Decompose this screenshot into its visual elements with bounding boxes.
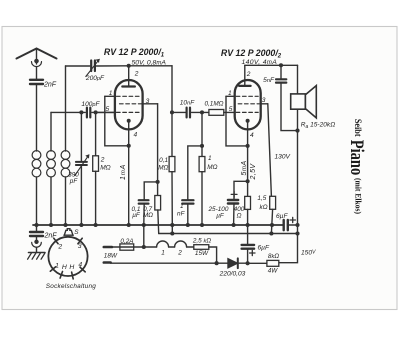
svg-text:0,1: 0,1 bbox=[159, 157, 168, 164]
node cathode RC bbox=[246, 179, 250, 183]
cathode U1 bbox=[127, 119, 131, 123]
wire B- to 8k bbox=[248, 262, 267, 264]
socket pin tick 4 bbox=[80, 267, 85, 272]
node 2M/bus bbox=[94, 223, 98, 227]
wire choke to 2,5k bbox=[187, 246, 194, 248]
antenna bbox=[17, 49, 57, 59]
resistor 1,5kOhm bbox=[270, 196, 276, 209]
svg-text:2,5V: 2,5V bbox=[250, 163, 257, 181]
choke winding 2 bbox=[175, 241, 187, 247]
wire bus to lower 2nF bbox=[36, 225, 38, 232]
node grid2 divider bbox=[200, 110, 204, 114]
wire screen U2 down bbox=[268, 104, 272, 197]
wire to cathode elko bbox=[234, 181, 248, 200]
svg-text:2: 2 bbox=[57, 244, 62, 251]
node 1,5k/bus1 bbox=[270, 223, 274, 227]
node L2/bus bbox=[49, 223, 53, 227]
capacitor 5nF bbox=[276, 79, 286, 82]
node speaker bottom bbox=[295, 129, 299, 133]
socket pin tick 1 bbox=[50, 267, 55, 272]
wire grid stopper to pin5 U2 bbox=[202, 111, 235, 113]
svg-text:µF: µF bbox=[216, 213, 225, 220]
svg-text:Ω: Ω bbox=[237, 213, 242, 220]
node fuse/link bbox=[142, 245, 146, 249]
inductor L2 bbox=[47, 151, 56, 177]
node L3/bus bbox=[63, 223, 67, 227]
node cathode junction U1 bbox=[127, 144, 131, 148]
svg-text:Sockelschaltung: Sockelschaltung bbox=[46, 283, 96, 290]
svg-text:2: 2 bbox=[134, 71, 139, 78]
svg-text:4W: 4W bbox=[268, 268, 279, 275]
socket pin tick 2 bbox=[54, 238, 58, 244]
capacitor 2nF (antenna) bbox=[30, 80, 43, 84]
svg-text:H: H bbox=[62, 264, 67, 271]
svg-text:50V, 0,8mA: 50V, 0,8mA bbox=[132, 59, 167, 66]
resistor 8kOhm bbox=[267, 260, 279, 266]
node varcap/bus bbox=[79, 223, 83, 227]
wire down to coil L1 bbox=[36, 84, 38, 151]
mains stub lower bbox=[104, 261, 111, 264]
node screen junction bbox=[156, 180, 160, 184]
capacitor 0,1uF bbox=[139, 200, 149, 203]
node 6uF/B- bbox=[246, 261, 250, 265]
wire screen to 0,1uF bbox=[144, 182, 157, 200]
diode 220/0,03 bbox=[228, 258, 238, 268]
wire anode U2 rail bbox=[245, 64, 298, 66]
wire 10nF bbox=[172, 111, 202, 113]
svg-text:200pF: 200pF bbox=[85, 75, 105, 82]
svg-text:0,1MΩ: 0,1MΩ bbox=[204, 100, 223, 107]
svg-text:1mA: 1mA bbox=[120, 164, 127, 180]
wire L2 to bus bbox=[50, 177, 52, 225]
wire to ground bbox=[36, 247, 38, 252]
cathode lead U2 pin 4 bbox=[247, 122, 249, 146]
grid g2 U2 (dashed) bbox=[238, 103, 259, 105]
pin 1 lead U1 bbox=[105, 95, 115, 97]
wire between windings bbox=[169, 246, 175, 248]
node 5nF top bbox=[279, 63, 283, 67]
svg-text:H: H bbox=[69, 264, 74, 271]
wire 1nF to bus bbox=[187, 204, 189, 225]
pin 5 lead U1 bbox=[97, 111, 115, 113]
resistor 1MOhm bbox=[199, 157, 205, 172]
wire screen U1 down bbox=[157, 104, 159, 182]
svg-text:2nF: 2nF bbox=[44, 233, 58, 240]
anode plate U1 bbox=[122, 85, 135, 87]
svg-text:4: 4 bbox=[78, 262, 82, 269]
wire L2 top to 100pF wire bbox=[50, 112, 52, 151]
node 400/bus1 bbox=[246, 223, 250, 227]
wire cathode U1 to bus bbox=[128, 146, 130, 225]
node 0,1uF/bus bbox=[142, 223, 146, 227]
op-amp? no: tube U1 envelope bbox=[115, 80, 143, 129]
node cathode/bus bbox=[127, 223, 131, 227]
pin 3 lead U1 bbox=[143, 103, 158, 105]
svg-text:3: 3 bbox=[146, 98, 150, 105]
svg-text:150V: 150V bbox=[301, 250, 316, 257]
svg-text:MΩ: MΩ bbox=[143, 212, 153, 219]
node link/bus2 bbox=[170, 231, 174, 235]
svg-text:MΩ: MΩ bbox=[158, 164, 168, 171]
node elko/bus bbox=[232, 223, 236, 227]
node 1M/bus bbox=[200, 223, 204, 227]
wire 1M to bus bbox=[201, 172, 203, 225]
variable capacitor 390pF bbox=[76, 162, 87, 165]
bus heater tap (bus2) bbox=[159, 233, 298, 235]
svg-text:Piano: Piano bbox=[347, 140, 368, 175]
wire elko to bus bbox=[233, 204, 235, 226]
inductor L1 bbox=[32, 151, 41, 177]
svg-text:1,5: 1,5 bbox=[257, 195, 266, 202]
svg-text:1: 1 bbox=[55, 263, 59, 270]
wire anode rail down at x172 bbox=[171, 66, 173, 157]
wire diode to node bbox=[238, 262, 248, 264]
arrow of 390pF bbox=[75, 154, 90, 175]
svg-text:2,5 kΩ: 2,5 kΩ bbox=[192, 238, 211, 245]
wire varcap to bus bbox=[80, 165, 82, 225]
speaker (transformer box) bbox=[291, 94, 306, 109]
wire to choke bbox=[144, 246, 157, 248]
grid g2 U1 (dashed) bbox=[120, 103, 142, 105]
cathode U2 bbox=[246, 119, 250, 123]
pin 1 lead U2 bbox=[226, 95, 235, 97]
svg-text:2: 2 bbox=[100, 157, 105, 164]
capacitor 1nF bbox=[182, 200, 193, 203]
svg-text:5: 5 bbox=[229, 106, 233, 113]
resistor 2MOhm bbox=[93, 156, 99, 172]
capacitor 10nF bbox=[187, 108, 190, 118]
wire grid circuit to 100pF bbox=[51, 111, 85, 113]
resistor 0,1MOhm (anode load U1) bbox=[169, 157, 175, 172]
svg-text:1: 1 bbox=[109, 90, 113, 97]
node 0,1M/bus1 bbox=[170, 223, 174, 227]
svg-text:2nF: 2nF bbox=[43, 82, 57, 89]
plug connector antenna bbox=[32, 59, 42, 66]
wire HT rail right bbox=[297, 65, 299, 94]
svg-text:(mit Elkos): (mit Elkos) bbox=[353, 178, 362, 214]
wire 0,7M to bus2 bbox=[157, 210, 160, 234]
resistor 2,5kOhm bbox=[194, 245, 209, 250]
wire bus1 to bus2 link bbox=[171, 225, 173, 234]
node rail/bus1 bbox=[295, 223, 299, 227]
pin 3 lead U2 bbox=[261, 103, 268, 105]
node L1/bus bbox=[34, 223, 38, 227]
wire to fuse bbox=[112, 246, 144, 248]
capacitor 25-100uF elko bbox=[228, 200, 238, 204]
node 10nF left bbox=[170, 110, 174, 114]
svg-text:5nF: 5nF bbox=[263, 77, 275, 84]
wire top feedback rail left bbox=[66, 65, 90, 67]
plus sign bus elko bbox=[290, 217, 295, 222]
grid g1 U2 (dashed) bbox=[236, 111, 258, 113]
svg-text:8kΩ: 8kΩ bbox=[268, 253, 279, 260]
node 2,5k drop/B- bbox=[215, 261, 219, 265]
svg-text:S: S bbox=[74, 229, 79, 236]
svg-text:MΩ: MΩ bbox=[100, 164, 111, 171]
svg-text:6µF: 6µF bbox=[276, 213, 288, 220]
svg-text:130V: 130V bbox=[275, 154, 291, 161]
plus sign elko bbox=[231, 192, 237, 198]
resistor 0,1MOhm (grid stopper U2) bbox=[209, 110, 224, 116]
wire 2,5k down to B- bbox=[209, 247, 217, 263]
svg-text:100pF: 100pF bbox=[81, 101, 100, 108]
wire top rail to anode node bbox=[96, 65, 172, 67]
svg-text:Seibt: Seibt bbox=[353, 119, 364, 137]
node 1nF/bus bbox=[186, 223, 190, 227]
svg-text:1: 1 bbox=[228, 90, 232, 97]
svg-text:RV 12 P 2000/1: RV 12 P 2000/1 bbox=[104, 47, 165, 59]
svg-text:µF: µF bbox=[132, 212, 141, 219]
node cathode junction U2 bbox=[246, 144, 250, 148]
wire 5nF to speaker bottom bbox=[281, 83, 298, 131]
capacitor 100pF bbox=[87, 108, 90, 118]
svg-text:4: 4 bbox=[134, 132, 138, 139]
wire varcap bbox=[80, 112, 82, 161]
anode plate U2 bbox=[239, 85, 251, 87]
svg-text:10nF: 10nF bbox=[180, 100, 195, 107]
wire to C antenna bbox=[36, 67, 38, 79]
ground bbox=[28, 253, 45, 260]
node anode U1 bbox=[127, 64, 131, 68]
plus sign 6uF bbox=[250, 250, 255, 255]
plug connector ground bbox=[32, 236, 42, 247]
socket pin tick 3 bbox=[78, 238, 82, 244]
node varcap top bbox=[79, 110, 83, 114]
cathode lead U1 pin 4 bbox=[128, 122, 130, 146]
resistor 400 Ohm bbox=[247, 181, 249, 196]
wire cathode down bbox=[247, 146, 249, 181]
wire 0,1uF to bus bbox=[143, 204, 145, 225]
anode lead U2 pin 2 bbox=[244, 65, 246, 85]
wire L3 top from top rail corner bbox=[65, 66, 67, 151]
wire bus elko to rail bbox=[288, 224, 298, 226]
wire 6uF to B- line bbox=[247, 249, 249, 264]
grid g3 U1 (dashed) bbox=[117, 95, 140, 97]
svg-text:220/0,03: 220/0,03 bbox=[219, 271, 246, 278]
svg-text:1: 1 bbox=[180, 203, 184, 210]
socket diagram circle bbox=[48, 237, 87, 276]
svg-text:0,2A: 0,2A bbox=[120, 238, 133, 245]
fuse 0,2A bbox=[120, 244, 134, 250]
socket pin tick H bbox=[60, 272, 62, 279]
wire mains lower to diode bbox=[111, 262, 228, 264]
node 1nF junction bbox=[200, 144, 204, 148]
capacitor 6uF (bus coupling elko) bbox=[284, 220, 288, 230]
svg-text:nF: nF bbox=[177, 211, 186, 218]
wire 2M top bbox=[95, 112, 97, 155]
wire L1 to bus bbox=[36, 177, 38, 225]
svg-text:MΩ: MΩ bbox=[207, 164, 217, 171]
wire 1nF branch bbox=[188, 146, 202, 200]
inductor L3 bbox=[61, 151, 70, 177]
svg-text:5mA: 5mA bbox=[241, 160, 248, 175]
trimmer capacitor 200pF bbox=[91, 61, 95, 72]
bus chassis (bus1) bbox=[33, 224, 284, 226]
capacitor 6uF elko vertical bbox=[242, 245, 255, 249]
svg-text:6µF: 6µF bbox=[258, 244, 270, 251]
wire grid leak down x202 bbox=[201, 112, 203, 156]
svg-text:kΩ: kΩ bbox=[260, 204, 268, 211]
choke winding 1 bbox=[157, 241, 169, 247]
svg-text:4: 4 bbox=[250, 132, 254, 139]
wire 400 to bus1 bbox=[247, 209, 249, 225]
wire bus1 link down to heater line bbox=[143, 225, 145, 247]
capacitor 2nF (to ground) bbox=[30, 232, 43, 236]
wire antenna lead bbox=[36, 49, 38, 65]
wire 2M to bus bbox=[95, 171, 97, 225]
wire 0,1M to bus bbox=[171, 172, 173, 225]
tube U2 envelope bbox=[235, 80, 261, 129]
wire 5nF top bbox=[280, 65, 282, 78]
node 1,5k/bus2 bbox=[269, 231, 273, 235]
wire pin1 to cathode U2 bbox=[226, 96, 248, 146]
resistor 0,7MOhm bbox=[157, 182, 159, 196]
grid g1 U1 (dashed) bbox=[117, 111, 140, 113]
anode lead U1 pin 2 bbox=[128, 66, 130, 86]
node rail/bus2 bbox=[295, 231, 299, 235]
svg-text:18W: 18W bbox=[104, 252, 118, 259]
svg-text:15W: 15W bbox=[195, 250, 209, 257]
svg-text:3: 3 bbox=[78, 243, 82, 250]
arrow of 200pF trimmer bbox=[86, 59, 100, 77]
socket key spigot bbox=[64, 229, 73, 236]
svg-text:2: 2 bbox=[246, 71, 251, 78]
wire L3 to bus bbox=[65, 177, 67, 225]
wire pin1 to cathode U1 bbox=[105, 96, 129, 146]
mains stub upper bbox=[104, 246, 112, 249]
socket pin tick H2 bbox=[72, 272, 74, 279]
wire 100pF to pin5 bbox=[92, 111, 115, 113]
svg-text:1: 1 bbox=[161, 249, 165, 256]
svg-text:3: 3 bbox=[262, 97, 266, 104]
grid g3 U2 (dashed) bbox=[236, 95, 258, 97]
svg-text:pF: pF bbox=[69, 178, 79, 185]
svg-text:RV 12 P 2000/2: RV 12 P 2000/2 bbox=[221, 48, 282, 60]
wire 1,5k to buses bbox=[271, 209, 272, 233]
wire down through bus2 bbox=[247, 225, 249, 244]
node 2M top bbox=[94, 110, 98, 114]
speaker horn bbox=[305, 86, 316, 118]
svg-text:1: 1 bbox=[208, 155, 212, 162]
svg-text:2: 2 bbox=[177, 249, 182, 256]
